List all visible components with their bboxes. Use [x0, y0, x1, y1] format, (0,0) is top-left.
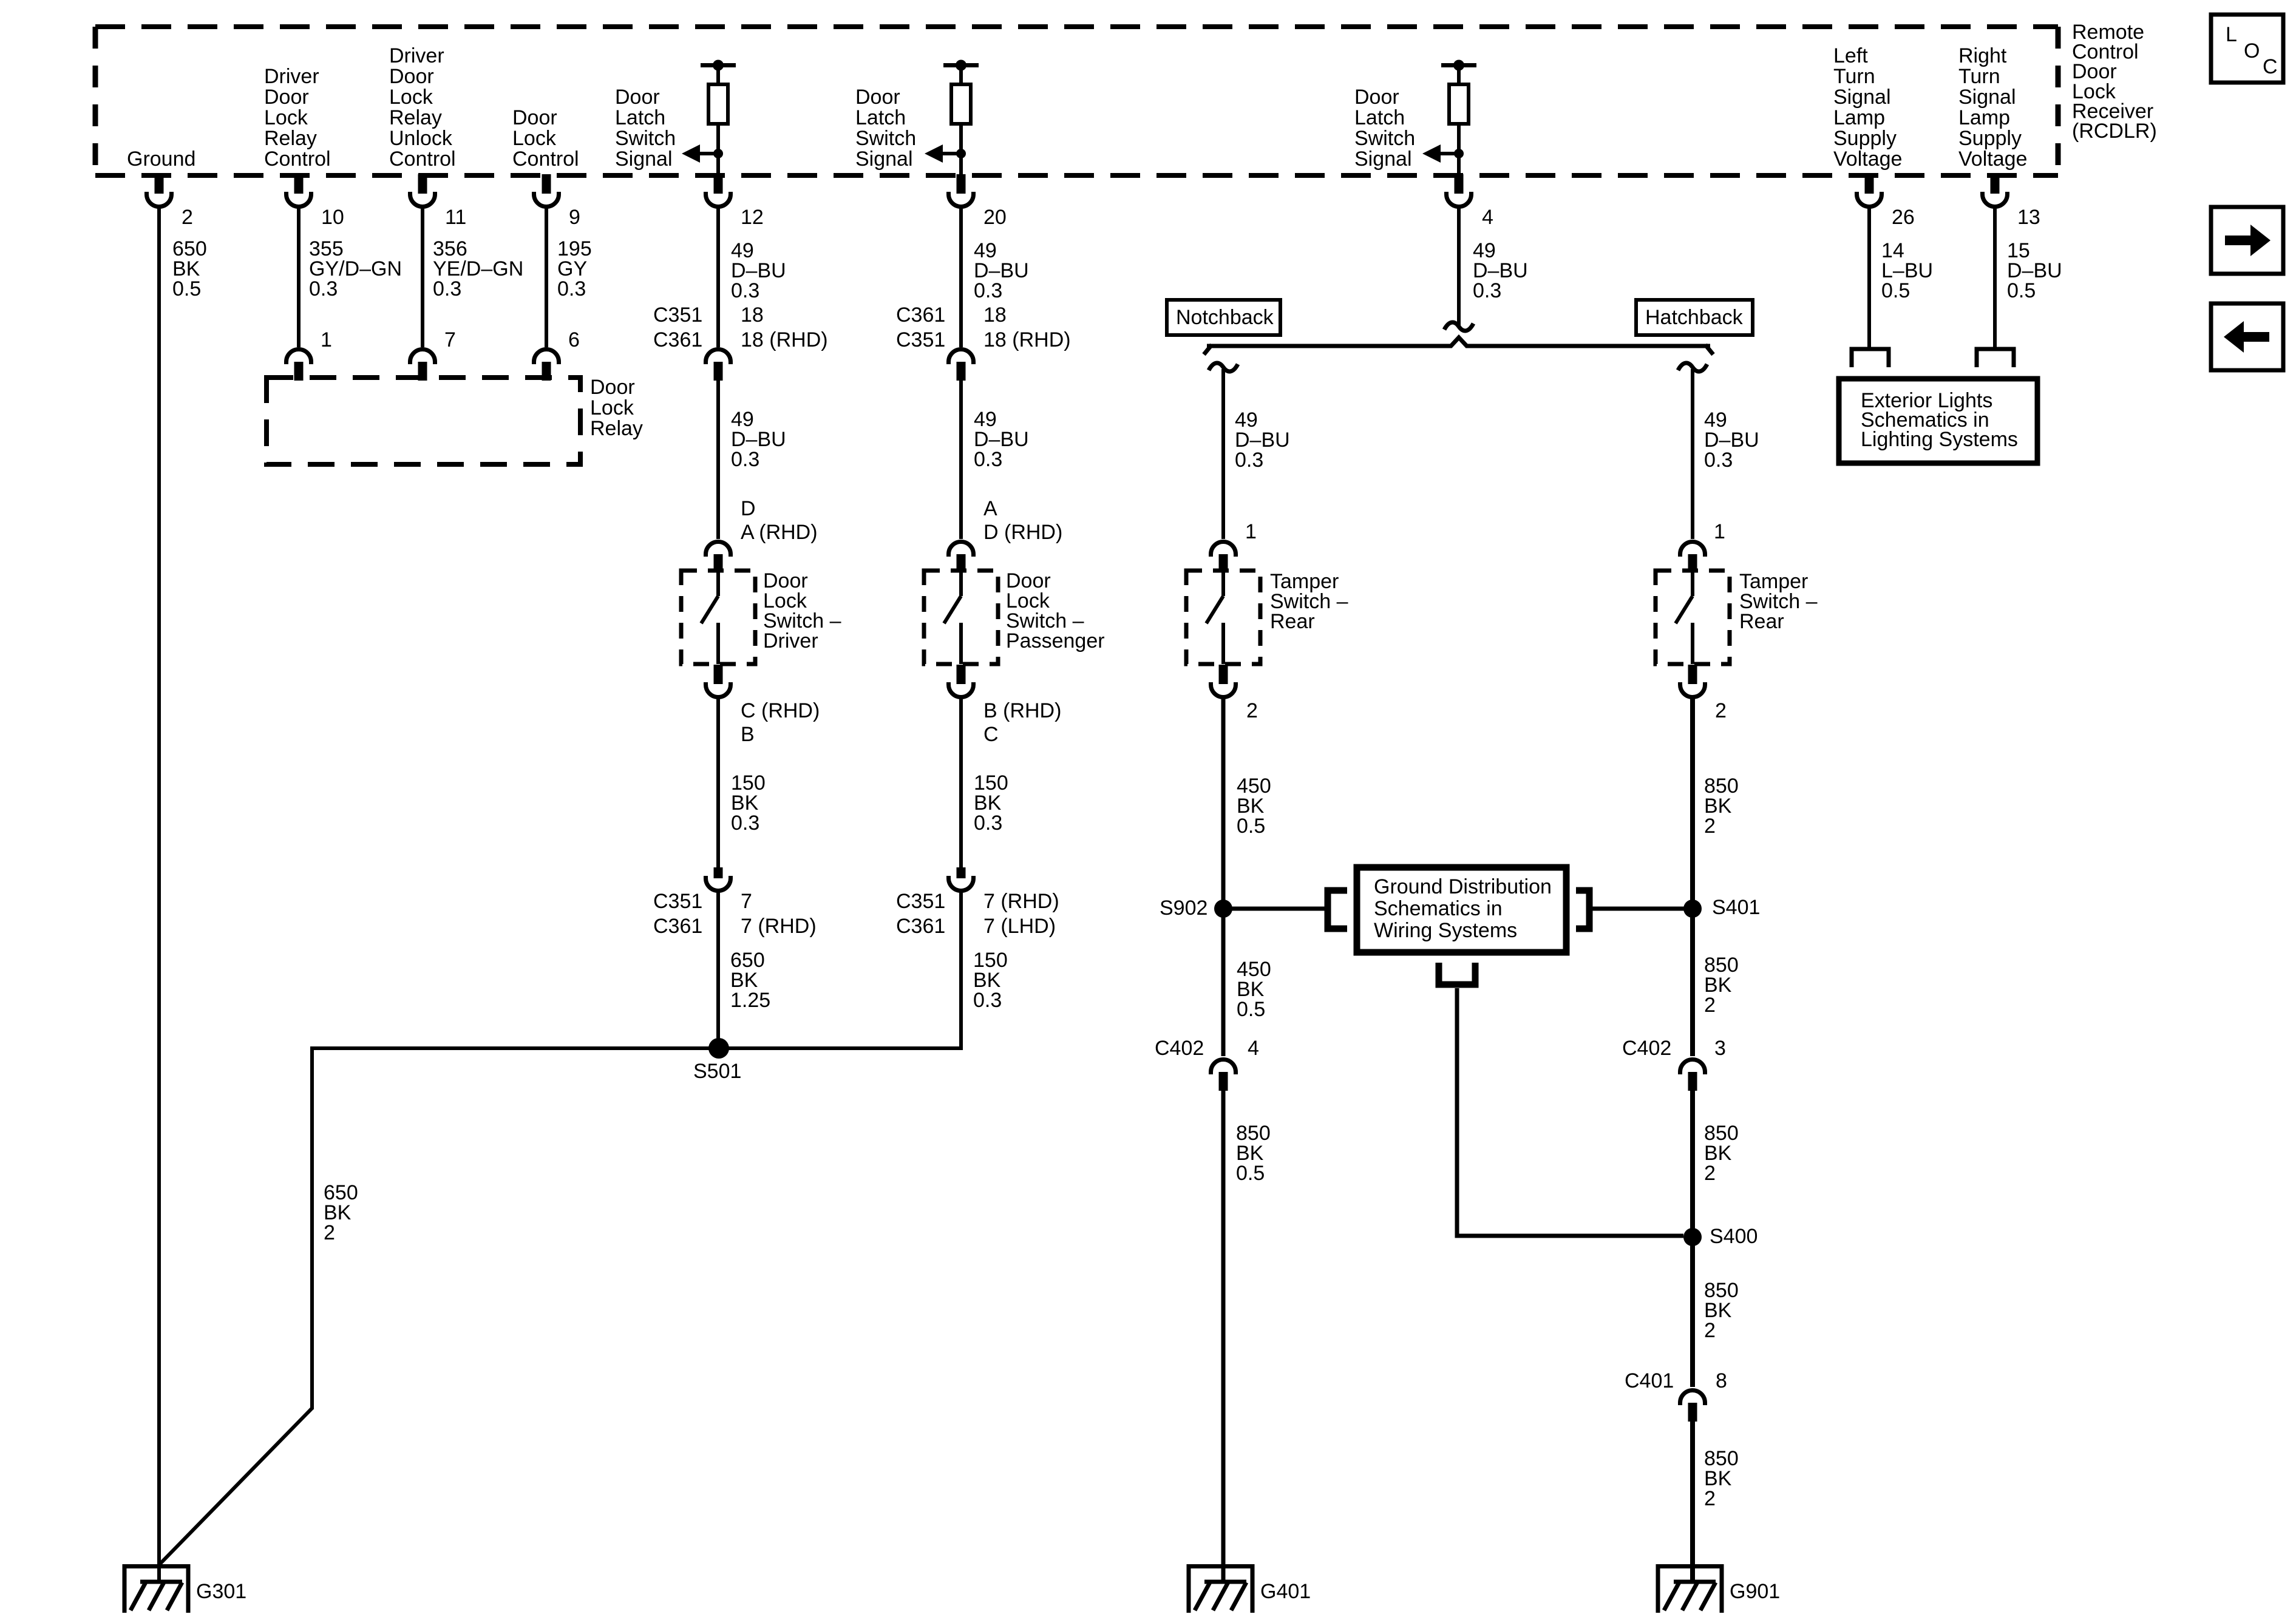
wire Door Lock Switch - Driver upper contact — [716, 571, 720, 596]
wire door latch rear node to pin — [1457, 154, 1461, 175]
svg-text:7 (LHD): 7 (LHD) — [983, 915, 1056, 938]
node splice S902 dot — [1214, 900, 1232, 918]
svg-text:2: 2 — [1704, 994, 1716, 1017]
svg-text:Turn: Turn — [1958, 65, 2000, 88]
svg-text:Right: Right — [1958, 44, 2007, 67]
wire 850 BK 2 below S400 — [1690, 1237, 1695, 1387]
wire Door Lock Switch - Driver lower contact — [716, 623, 720, 664]
svg-text:8: 8 — [1716, 1369, 1727, 1392]
svg-text:Turn: Turn — [1833, 65, 1875, 88]
svg-text:Unlock: Unlock — [389, 127, 453, 150]
wire 850 BK 0.5 to G401 — [1221, 1090, 1226, 1582]
svg-text:0.3: 0.3 — [731, 812, 759, 835]
pin RCDLR pin 9 (Door Lock Control) male pin stub — [542, 174, 551, 194]
svg-text:18 (RHD): 18 (RHD) — [983, 328, 1071, 351]
wire bracket to S401 — [1589, 907, 1693, 911]
wire 150 BK 0.3 to splice — [959, 892, 963, 1048]
svg-text:B (RHD): B (RHD) — [983, 699, 1061, 722]
svg-text:Control: Control — [512, 147, 579, 171]
wire 49 D-BU upper segment driver — [716, 208, 720, 347]
svg-text:26: 26 — [1892, 206, 1915, 229]
connector C402 cavity 3 half-circle — [1680, 1060, 1705, 1075]
pin Tamper Switch Rear notchback pin 2 stub — [1219, 665, 1228, 684]
svg-text:A (RHD): A (RHD) — [741, 521, 818, 544]
svg-text:C351: C351 — [896, 890, 945, 913]
symbol left-arrow navigation box — [2211, 303, 2283, 370]
switch Tamper Switch - Rear (hatchback) dashed component box — [1656, 571, 1730, 664]
svg-text:0.3: 0.3 — [973, 989, 1002, 1012]
svg-text:Control: Control — [389, 147, 456, 171]
pin Door Lock Relay pin 7 male pin stub — [418, 362, 427, 381]
svg-text:1.25: 1.25 — [730, 989, 770, 1012]
relay Door Lock Relay dashed box — [267, 378, 580, 464]
pin C402 cavity 4 male pin stub — [1219, 1072, 1228, 1091]
svg-text:0.3: 0.3 — [557, 277, 586, 300]
connector Door Lock Switch Passenger pin 2 female cup — [949, 682, 974, 697]
switch Door Lock Switch - Driver blade (open) — [701, 596, 718, 623]
wire door latch passenger signal arrow tail — [942, 152, 961, 155]
node door latch rear tick junction dot — [1453, 60, 1464, 71]
wire 650 BK 1.25 to splice — [716, 892, 720, 1048]
wire door latch driver internal tick — [701, 63, 736, 67]
wire door latch passenger tick to resistor — [959, 66, 963, 85]
wire door latch rear internal tick — [1441, 63, 1476, 67]
node door latch rear signal junction dot — [1454, 149, 1464, 158]
pin Door Lock Switch Driver pin 1 stub — [714, 554, 723, 571]
pin Door Lock Switch Passenger pin 2 stub — [957, 665, 966, 684]
svg-text:O: O — [2244, 39, 2260, 63]
wire door latch rear tick to resistor — [1457, 66, 1461, 85]
symbol off-page bracket (right turn) — [1977, 349, 2014, 367]
wire door latch passenger internal tick — [943, 63, 979, 67]
wire 195 GY — [545, 208, 548, 347]
svg-text:4: 4 — [1248, 1037, 1259, 1060]
svg-text:L: L — [2226, 23, 2237, 46]
svg-text:Signal: Signal — [1958, 86, 2016, 109]
svg-text:Door: Door — [389, 65, 434, 88]
wire door latch driver signal arrow tail — [699, 152, 718, 155]
svg-text:0.3: 0.3 — [974, 448, 1002, 471]
svg-text:C361: C361 — [653, 915, 702, 938]
symbol off-page bracket (left turn) — [1852, 349, 1889, 367]
box Exterior Lights Schematics in Lighting Systems — [1839, 379, 2037, 463]
svg-text:D: D — [741, 497, 756, 520]
arrow door latch rear signal direction arrowhead — [1422, 144, 1441, 163]
connector RCDLR pin 2 (Ground) female terminal cup — [147, 192, 172, 207]
svg-text:2: 2 — [1704, 1162, 1716, 1185]
label box Notchback — [1167, 300, 1280, 335]
svg-text:11: 11 — [445, 206, 466, 229]
connector door latch driver female terminal cup — [706, 192, 731, 207]
svg-text:0.5: 0.5 — [1237, 815, 1265, 838]
svg-text:Lock: Lock — [264, 106, 308, 129]
svg-text:Left: Left — [1833, 44, 1868, 67]
pin RCDLR pin 26 (Left Turn Signal Lamp Supply Voltage) male pin stub — [1865, 174, 1874, 194]
wire 450 BK 0.5 lower — [1221, 909, 1226, 1056]
svg-text:0.3: 0.3 — [1473, 279, 1501, 302]
pin Door Lock Switch Passenger pin 1 stub — [957, 554, 966, 571]
resistor door latch driver door latch switch pull-up — [708, 84, 728, 124]
svg-text:C: C — [2263, 55, 2278, 78]
connector Door Lock Switch Passenger pin 1 half-circle — [949, 541, 974, 557]
svg-text:2: 2 — [324, 1221, 335, 1244]
svg-text:18 (RHD): 18 (RHD) — [741, 328, 828, 351]
svg-text:0.3: 0.3 — [974, 279, 1002, 302]
svg-text:Lamp: Lamp — [1833, 106, 1885, 129]
svg-text:0.3: 0.3 — [309, 277, 338, 300]
svg-text:0.3: 0.3 — [731, 448, 759, 471]
svg-text:Signal: Signal — [615, 147, 673, 171]
svg-text:Notchback: Notchback — [1176, 306, 1274, 329]
svg-text:3: 3 — [1714, 1037, 1726, 1060]
svg-text:S501: S501 — [693, 1060, 741, 1083]
pin door latch driver male pin stub — [714, 174, 723, 194]
wire Door Lock Switch - Passenger lower contact — [959, 623, 963, 664]
svg-text:Passenger: Passenger — [1006, 629, 1105, 653]
symbol bracket bottom (off-page connection) — [1439, 963, 1475, 985]
wire 650 BK 2 diagonal to G301 — [160, 1408, 312, 1564]
svg-text:Hatchback: Hatchback — [1645, 306, 1744, 329]
arrow door latch passenger signal direction arrowhead — [925, 144, 943, 163]
node door latch driver signal junction dot — [713, 149, 723, 158]
svg-text:Supply: Supply — [1958, 127, 2022, 150]
resistor door latch passenger door latch switch pull-up — [951, 84, 971, 124]
wire harness branch brace — [1204, 337, 1713, 354]
pin Door Lock Relay pin 6 male pin stub — [542, 362, 551, 381]
wire S902 to ground distribution bracket — [1223, 907, 1326, 911]
connector Tamper Switch Rear notchback pin 2 female cup — [1211, 682, 1236, 697]
switch Door Lock Switch - Passenger blade (open) — [944, 596, 961, 623]
svg-text:2: 2 — [1704, 1319, 1716, 1342]
svg-text:18: 18 — [983, 303, 1007, 327]
wire Door Lock Switch - Passenger upper contact — [959, 571, 963, 596]
svg-text:Lock: Lock — [512, 127, 557, 150]
wire 850 BK 2 below S401 — [1690, 909, 1695, 1056]
connector C351/C361 cavity 18 half-circle — [706, 350, 731, 365]
svg-text:Lamp: Lamp — [1958, 106, 2010, 129]
svg-text:G401: G401 — [1260, 1580, 1311, 1603]
switch Tamper Switch - Rear (hatchback) blade (open) — [1676, 596, 1693, 623]
svg-text:B: B — [741, 723, 755, 746]
svg-text:0.5: 0.5 — [1881, 279, 1910, 302]
svg-text:Rear: Rear — [1270, 610, 1315, 633]
wire 650 BK 2 down leg — [310, 1046, 314, 1409]
wire 850 BK 2 to G901 — [1690, 1421, 1695, 1582]
wire harness break hook (rear latch) — [1444, 322, 1473, 331]
svg-text:C361: C361 — [896, 915, 945, 938]
ground G401 symbol — [1187, 1564, 1253, 1613]
connector C401 cavity 8 half-circle — [1680, 1391, 1705, 1406]
pin door latch passenger male pin stub — [957, 174, 966, 194]
pin C361/C351 cavity 18 male pin stub — [957, 362, 966, 381]
wire door latch rear resistor to signal node — [1457, 124, 1461, 154]
svg-text:18: 18 — [741, 303, 764, 327]
connector Door Lock Switch Driver pin 2 female cup — [706, 682, 731, 697]
wire 49 D-BU hatchback — [1691, 369, 1694, 539]
pin Tamper Switch Rear notchback pin 1 stub — [1219, 554, 1228, 571]
connector Tamper Switch Rear hatchback pin 1 half-circle — [1680, 541, 1705, 557]
node door latch passenger signal junction dot — [956, 149, 966, 158]
svg-text:7: 7 — [741, 890, 752, 913]
wire 450 BK 0.5 upper — [1221, 697, 1226, 909]
svg-text:Signal: Signal — [1354, 147, 1412, 171]
svg-text:(RCDLR): (RCDLR) — [2072, 120, 2157, 143]
connector RCDLR pin 9 (Door Lock Control) female terminal cup — [534, 192, 559, 207]
pin C351/C361 cavity 18 male pin stub — [714, 362, 723, 381]
svg-text:S401: S401 — [1712, 896, 1760, 919]
svg-text:Voltage: Voltage — [1833, 147, 1902, 171]
wire 49 D-BU upper segment passenger — [959, 208, 963, 347]
wire 49 D-BU notchback — [1221, 369, 1225, 539]
svg-text:C402: C402 — [1622, 1037, 1671, 1060]
svg-text:2: 2 — [1704, 815, 1716, 838]
wire door latch driver resistor to signal node — [716, 124, 720, 154]
switch Door Lock Switch - Passenger dashed component box — [924, 571, 998, 664]
wire 650 BK ground lead — [157, 208, 161, 1582]
svg-text:Door: Door — [855, 86, 900, 109]
svg-text:0.5: 0.5 — [1237, 998, 1265, 1021]
svg-text:Schematics in: Schematics in — [1374, 897, 1503, 920]
svg-text:D (RHD): D (RHD) — [983, 521, 1062, 544]
svg-text:S902: S902 — [1160, 897, 1207, 920]
svg-text:0.3: 0.3 — [974, 812, 1002, 835]
svg-text:2: 2 — [1715, 699, 1727, 722]
wire harness break hook (hatchback) — [1678, 363, 1707, 371]
svg-text:6: 6 — [568, 328, 580, 351]
switch Tamper Switch - Rear (notchback) blade (open) — [1206, 596, 1223, 623]
svg-text:Lock: Lock — [389, 86, 433, 109]
svg-text:20: 20 — [983, 206, 1007, 229]
wire 15 D-BU — [1993, 208, 1997, 348]
connector RCDLR pin 26 (Left Turn Signal Lamp Supply Voltage) female terminal cup — [1857, 192, 1882, 207]
wire 49 D-BU door harness segment driver — [716, 381, 720, 539]
wire door latch driver tick to resistor — [716, 66, 720, 85]
svg-text:Latch: Latch — [1354, 106, 1405, 129]
pin C351/C361 cavity 7 passenger male pin stub — [957, 867, 966, 878]
svg-text:C: C — [983, 723, 999, 746]
wire splice bus S501 horizontal — [310, 1046, 963, 1050]
pin door latch rear male pin stub — [1455, 174, 1464, 194]
svg-text:Door: Door — [512, 106, 557, 129]
connector C351/C361 cavity 7 female terminal cup — [706, 876, 731, 891]
svg-text:Ground: Ground — [127, 147, 195, 171]
svg-text:Driver: Driver — [264, 65, 319, 88]
svg-text:C (RHD): C (RHD) — [741, 699, 820, 722]
wire 49 D-BU door harness segment passenger — [959, 381, 963, 539]
module RCDLR dashed outline box — [95, 24, 2058, 29]
pin RCDLR pin 2 (Ground) male pin stub — [155, 174, 164, 194]
svg-text:Lighting Systems: Lighting Systems — [1861, 428, 2018, 451]
pin Door Lock Relay pin 1 male pin stub — [294, 362, 304, 381]
svg-text:Control: Control — [264, 147, 331, 171]
svg-text:7 (RHD): 7 (RHD) — [983, 890, 1059, 913]
connector Door Lock Relay pin 1 half-circle — [287, 350, 311, 365]
svg-text:2: 2 — [1704, 1487, 1716, 1510]
node door latch passenger tick junction dot — [956, 60, 966, 71]
svg-text:A: A — [983, 497, 997, 520]
pin C351/C361 cavity 7 male pin stub — [714, 867, 723, 878]
svg-text:Driver: Driver — [389, 44, 444, 67]
svg-text:Ground Distribution: Ground Distribution — [1374, 875, 1552, 898]
symbol bracket left (off-page connection) — [1328, 890, 1347, 929]
svg-text:C351: C351 — [653, 890, 702, 913]
svg-text:7: 7 — [444, 328, 456, 351]
svg-text:0.3: 0.3 — [731, 279, 759, 302]
svg-text:2: 2 — [1246, 699, 1258, 722]
svg-text:Latch: Latch — [615, 106, 665, 129]
svg-text:Lock: Lock — [590, 396, 634, 419]
pin RCDLR pin 13 (Right Turn Signal Lamp Supply Voltage) male pin stub — [1991, 174, 2000, 194]
pin C401 cavity 8 male pin stub — [1688, 1403, 1697, 1422]
pin RCDLR pin 10 (Driver Door Lock Relay Control) male pin stub — [294, 174, 304, 194]
svg-text:Voltage: Voltage — [1958, 147, 2027, 171]
connector RCDLR pin 13 (Right Turn Signal Lamp Supply Voltage) female terminal cup — [1983, 192, 2008, 207]
box Ground Distribution Schematics in Wiring Systems — [1357, 867, 1566, 952]
svg-text:0.3: 0.3 — [433, 277, 461, 300]
svg-text:Switch: Switch — [615, 127, 676, 150]
svg-text:Supply: Supply — [1833, 127, 1897, 150]
wire 355 GY/D-GN — [297, 208, 301, 347]
connector RCDLR pin 11 (Driver Door Lock Relay Unlock Control) female terminal cup — [410, 192, 435, 207]
connector Door Lock Switch Driver pin 1 half-circle — [706, 541, 731, 557]
svg-text:2: 2 — [182, 206, 193, 229]
wire Tamper Switch - Rear (notchback) upper contact — [1221, 571, 1225, 596]
wire 150 BK driver switch return — [716, 697, 720, 867]
svg-text:0.5: 0.5 — [172, 277, 201, 300]
svg-text:Relay: Relay — [590, 417, 643, 440]
svg-text:0.5: 0.5 — [2007, 279, 2036, 302]
wire 150 BK passenger switch return — [959, 697, 963, 867]
svg-text:Door: Door — [264, 86, 309, 109]
svg-text:Rear: Rear — [1739, 610, 1784, 633]
wire 49 D-BU rear segment — [1457, 208, 1461, 327]
svg-text:13: 13 — [2017, 206, 2040, 229]
wire door latch rear signal arrow tail — [1440, 152, 1459, 155]
svg-text:0.3: 0.3 — [1704, 449, 1733, 472]
wire 356 YE/D-GN — [421, 208, 424, 347]
svg-text:Relay: Relay — [389, 106, 442, 129]
node splice S400 dot — [1683, 1228, 1702, 1246]
switch Door Lock Switch - Driver dashed component box — [681, 571, 755, 664]
svg-text:C361: C361 — [653, 328, 702, 351]
svg-text:Wiring Systems: Wiring Systems — [1374, 919, 1517, 942]
wire 850 BK 2 above S401 — [1690, 697, 1695, 909]
wire door latch driver node to pin — [716, 154, 720, 175]
wire Tamper Switch - Rear (notchback) lower contact — [1221, 623, 1225, 664]
node splice S401 dot — [1683, 900, 1702, 918]
svg-text:Signal: Signal — [855, 147, 913, 171]
symbol right-arrow navigation box — [2211, 207, 2283, 274]
connector Tamper Switch Rear hatchback pin 2 female cup — [1680, 682, 1705, 697]
symbol LOC (schematic locator) box — [2211, 15, 2283, 83]
ground G301 symbol — [123, 1564, 189, 1613]
svg-text:C402: C402 — [1155, 1037, 1204, 1060]
svg-text:C361: C361 — [896, 303, 945, 327]
svg-text:Door: Door — [590, 376, 635, 399]
connector door latch rear female terminal cup — [1447, 192, 1472, 207]
switch Tamper Switch - Rear (notchback) dashed component box — [1186, 571, 1260, 664]
svg-text:G901: G901 — [1730, 1580, 1780, 1603]
ground G901 symbol — [1656, 1564, 1722, 1613]
connector Door Lock Relay pin 7 half-circle — [410, 350, 435, 365]
wire Tamper Switch - Rear (hatchback) lower contact — [1691, 623, 1694, 664]
svg-text:0.5: 0.5 — [1236, 1162, 1265, 1185]
svg-text:Relay: Relay — [264, 127, 317, 150]
wire 14 L-BU — [1867, 208, 1871, 348]
label box Hatchback — [1636, 300, 1753, 335]
svg-text:4: 4 — [1482, 206, 1493, 229]
pin C402 cavity 3 male pin stub — [1688, 1072, 1697, 1091]
connector Door Lock Relay pin 6 half-circle — [534, 350, 559, 365]
svg-text:9: 9 — [569, 206, 580, 229]
svg-text:Door: Door — [1354, 86, 1399, 109]
connector RCDLR pin 10 (Driver Door Lock Relay Control) female terminal cup — [287, 192, 311, 207]
svg-text:Door: Door — [615, 86, 660, 109]
svg-text:Switch: Switch — [855, 127, 916, 150]
resistor door latch rear door latch switch pull-up — [1449, 84, 1469, 124]
svg-text:Latch: Latch — [855, 106, 906, 129]
wire door latch passenger node to pin — [959, 154, 963, 175]
node door latch driver tick junction dot — [713, 60, 724, 71]
svg-text:1: 1 — [1714, 520, 1725, 543]
svg-text:1: 1 — [1245, 520, 1257, 543]
svg-text:1: 1 — [321, 328, 332, 351]
svg-text:7 (RHD): 7 (RHD) — [741, 915, 817, 938]
wire door latch passenger resistor to signal node — [959, 124, 963, 154]
pin Tamper Switch Rear hatchback pin 2 stub — [1688, 665, 1697, 684]
svg-text:C401: C401 — [1625, 1369, 1674, 1392]
svg-text:Switch: Switch — [1354, 127, 1415, 150]
node splice S501 dot — [708, 1038, 729, 1059]
svg-text:C351: C351 — [896, 328, 945, 351]
svg-text:10: 10 — [321, 206, 344, 229]
svg-text:C351: C351 — [653, 303, 702, 327]
connector C351/C361 cavity 7 passenger female terminal cup — [949, 876, 974, 891]
svg-text:0.3: 0.3 — [1235, 449, 1263, 472]
connector Tamper Switch Rear notchback pin 1 half-circle — [1211, 541, 1236, 557]
svg-text:Driver: Driver — [763, 629, 818, 653]
wire Tamper Switch - Rear (hatchback) upper contact — [1691, 571, 1694, 596]
connector C402 cavity 4 half-circle — [1211, 1060, 1236, 1075]
wire harness break hook (notchback) — [1209, 363, 1238, 371]
arrow door latch driver signal direction arrowhead — [682, 144, 700, 163]
svg-text:12: 12 — [741, 206, 764, 229]
svg-text:S400: S400 — [1710, 1225, 1758, 1248]
svg-text:G301: G301 — [196, 1580, 246, 1603]
connector C361/C351 cavity 18 half-circle — [949, 350, 974, 365]
svg-text:Signal: Signal — [1833, 86, 1891, 109]
connector door latch passenger female terminal cup — [949, 192, 974, 207]
wire ground distribution leg to S400 — [1457, 988, 1683, 1236]
pin Door Lock Switch Driver pin 2 stub — [714, 665, 723, 684]
pin Tamper Switch Rear hatchback pin 1 stub — [1688, 554, 1697, 571]
pin RCDLR pin 11 (Driver Door Lock Relay Unlock Control) male pin stub — [418, 174, 427, 194]
wire 850 BK 2 to S400 — [1690, 1090, 1695, 1237]
symbol bracket right (off-page connection) — [1576, 890, 1589, 929]
